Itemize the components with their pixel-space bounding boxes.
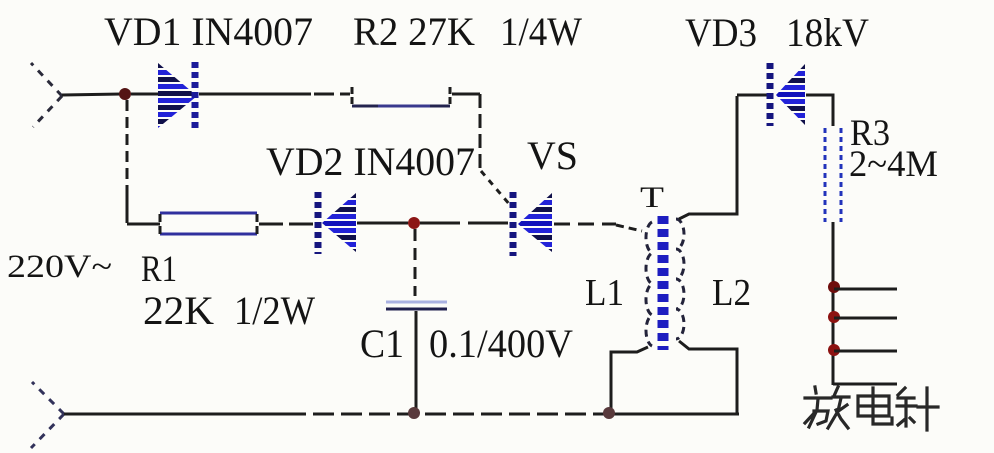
input terminal bottom (220V~ line 2) xyxy=(31,382,64,448)
wire: L2 bottom to ground rail xyxy=(679,341,737,413)
svg-text:R2 27K: R2 27K xyxy=(353,9,475,54)
svg-text:T: T xyxy=(640,181,664,214)
node B junction dot xyxy=(408,217,420,229)
wire: R1 row from node A down xyxy=(126,100,129,195)
needle dot 2 xyxy=(828,311,840,323)
wire: VS to transformer L1 (dashed) xyxy=(554,223,616,226)
svg-text:L1: L1 xyxy=(585,272,624,314)
winding L2 (right, dashed arcs) xyxy=(676,219,684,339)
wire: top terminal to node A xyxy=(62,94,122,95)
thyristor VS cathode bar (dashed) xyxy=(510,192,517,256)
wire: L2 top to VD3 xyxy=(679,96,737,219)
winding L1 (left, dashed arcs) xyxy=(646,222,652,346)
wire: VD3 to R3 corner xyxy=(806,95,833,126)
svg-text:R1: R1 xyxy=(141,249,177,290)
needle line 4 xyxy=(833,383,897,386)
wire: to VD3 anode xyxy=(737,94,768,97)
char 电 xyxy=(858,388,892,424)
rail junction dot L1 xyxy=(603,407,615,419)
diode VD3 (striped triangle pointing left) xyxy=(774,64,806,125)
wire: node B to VS (dashed) xyxy=(420,222,508,225)
svg-text:2~4M: 2~4M xyxy=(849,144,938,185)
svg-text:1/2W: 1/2W xyxy=(234,288,315,333)
needle dot 3 xyxy=(828,344,840,356)
needle line 3 xyxy=(834,350,897,353)
capacitor C1 lead from node B xyxy=(414,229,417,296)
capacitor C1 bottom plate xyxy=(386,308,447,311)
svg-text:220V~: 220V~ xyxy=(7,249,112,285)
ground rail (bottom wire) xyxy=(64,413,285,416)
resistor R3 (vertical dashed blue lines) xyxy=(824,128,827,222)
wire: VD2 to node B xyxy=(357,222,408,225)
capacitor C1 lead to rail xyxy=(415,311,418,412)
diode VD2 IN4007 cathode bar (dashed) xyxy=(315,192,322,254)
svg-text:VD1 IN4007: VD1 IN4007 xyxy=(104,9,313,54)
wire: R1 to VD2 (dashed) xyxy=(259,223,314,226)
needle line 2 xyxy=(834,317,897,320)
wire: L1 bottom to ground rail xyxy=(611,347,648,412)
char 针 xyxy=(897,388,938,430)
diode VD1 cathode bar (dashed) xyxy=(192,62,199,128)
input terminal top (220V~ line 1) xyxy=(31,63,62,127)
wire: VD1 to R2 xyxy=(199,93,311,96)
diode VD1 IN4007 (striped triangle pointing right) xyxy=(156,63,198,129)
svg-text:VS: VS xyxy=(527,133,578,178)
svg-text:1/4W: 1/4W xyxy=(500,9,582,54)
svg-text:VD3: VD3 xyxy=(685,10,757,55)
svg-text:18kV: 18kV xyxy=(786,10,869,55)
wire: node A to VD1 anode xyxy=(131,93,158,96)
needle dot 1 xyxy=(828,281,840,293)
diode VD3 cathode bar (dashed) xyxy=(767,63,774,126)
svg-text:C1: C1 xyxy=(360,321,404,366)
node A junction dot xyxy=(119,88,131,100)
rail junction dot C1 xyxy=(408,407,420,419)
capacitor C1 top plate xyxy=(386,301,447,304)
resistor R2 (open-top box) xyxy=(352,87,450,106)
char 放 xyxy=(805,387,849,428)
transformer T core (blue dashed bar) xyxy=(658,216,669,350)
resistor R1 (blue box) xyxy=(160,213,257,234)
needle line 1 xyxy=(834,288,897,291)
thyristor VS (striped triangle pointing left) xyxy=(516,193,554,253)
label 放电针 (discharge needles, hand-drawn strokes) xyxy=(805,387,938,430)
svg-text:VD2 IN4007: VD2 IN4007 xyxy=(266,139,475,184)
diode VD2 (striped triangle pointing left) xyxy=(320,193,358,253)
svg-text:22K: 22K xyxy=(143,288,214,333)
wire: R2 to corner, down to VS xyxy=(452,93,480,96)
svg-text:L2: L2 xyxy=(712,272,751,314)
wire: R3 to discharge needles xyxy=(832,222,835,385)
svg-text:0.1/400V: 0.1/400V xyxy=(429,321,573,366)
